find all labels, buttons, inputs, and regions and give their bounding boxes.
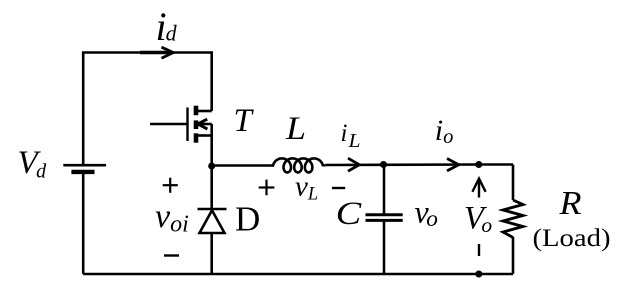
transistor T body lead [200,123,212,126]
svg-text:D: D [235,200,260,239]
svg-text:T: T [234,103,255,139]
minus sign voi [164,254,179,256]
arrow io on output wire [447,159,459,171]
svg-text:R: R [558,185,581,222]
wire capacitor bottom plate to bottom rail [383,220,386,274]
transistor T body channel bar [194,120,199,129]
transistor T source channel bar [194,133,199,142]
transistor T body arrow [198,119,208,129]
plus sign voi [163,178,178,193]
inductor L [272,158,326,172]
battery positive plate [63,164,106,167]
transistor T gate bar [186,108,188,142]
wire transistor source down to diode node [210,124,213,166]
svg-text:i: i [341,120,348,147]
arrow iL on middle wire [348,158,359,171]
wire right load branch upper [512,165,515,201]
svg-text:C: C [336,194,363,231]
diode D triangle [200,210,225,233]
plus sign vL [259,180,275,196]
svg-text:(Load): (Load) [533,225,611,252]
wire node to capacitor top plate [383,165,386,215]
arrow id on top wire [140,47,173,58]
wire diode anode to bottom rail [210,233,213,274]
transistor T drain lead [198,110,212,113]
capacitor C [366,165,403,275]
wire middle horizontal from transistor source node to load node [212,164,272,167]
wire node to diode cathode [210,166,213,209]
transistor T source lead [198,134,212,137]
diode D [198,166,227,274]
svg-text:L: L [285,111,306,147]
voltage source Vd (battery) [63,165,106,172]
node at output bottom [475,271,482,278]
wire bottom rail [83,273,513,276]
transistor T gate lead [150,123,188,125]
wire left lower from battery to bottom rail [82,172,85,274]
node at output top [475,161,482,168]
arrow Vo (dashed voltage arrow) [472,179,485,256]
battery negative plate [71,170,94,174]
capacitor C bottom plate [366,219,403,222]
svg-text:L: L [347,131,360,152]
wire right load branch lower [512,237,515,274]
node at inductor/capacitor junction [380,161,387,168]
minus sign vL [332,187,345,189]
capacitor C top plate [366,213,403,216]
transistor T (MOSFET) [150,106,212,166]
diode D cathode bar [198,208,227,211]
transistor T drain channel bar [194,106,199,116]
node at transistor source / diode junction [208,163,215,170]
wire top from source Vd to transistor drain branch [83,53,212,166]
resistor R zigzag [503,200,523,238]
wire from inductor to output node [325,163,513,166]
